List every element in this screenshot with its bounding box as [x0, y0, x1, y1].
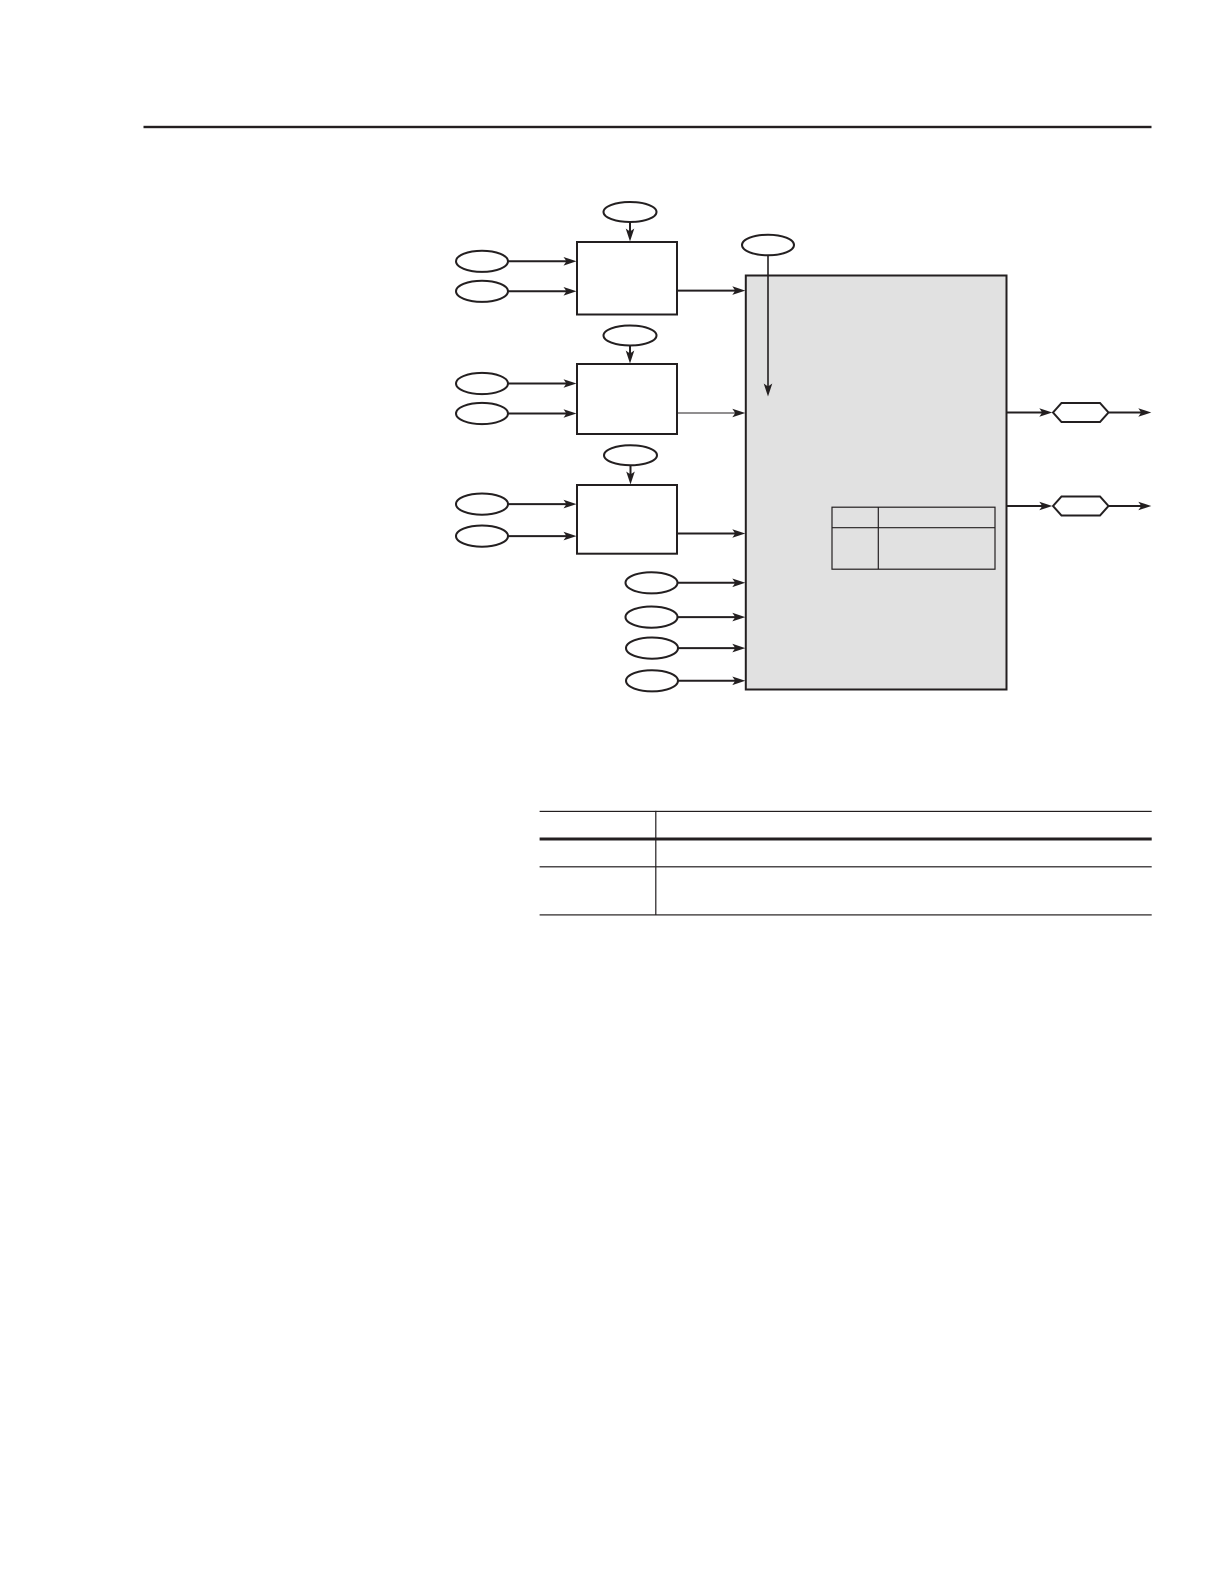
wire E10 into main block — [767, 255, 769, 388]
wire B3 to main block — [677, 533, 736, 535]
wire B2 to main block (thin) — [677, 412, 736, 414]
bottom table column divider — [655, 811, 656, 916]
wire main block to hexagon H1 — [1007, 412, 1044, 414]
bottom table top border — [540, 811, 1152, 812]
block B3 — [577, 485, 677, 554]
block B1 — [577, 242, 677, 315]
output hexagon H1 — [1053, 403, 1109, 422]
input ellipse E14 — [626, 670, 678, 691]
bottom table bottom border — [540, 914, 1152, 915]
wire H2 out — [1109, 505, 1143, 507]
arrowhead B3 output — [732, 529, 745, 538]
output hexagon H2 — [1053, 497, 1109, 516]
wire E11 to main block — [678, 582, 737, 584]
arrowhead E14 — [732, 677, 745, 686]
arrowhead E12 — [732, 613, 745, 622]
arrowhead into H2 — [1039, 502, 1052, 511]
wire E7 to B3 — [630, 465, 632, 476]
input ellipse E3 — [456, 281, 508, 302]
input ellipse E7 (block B3 top) — [604, 445, 657, 465]
wire E3 to B1 — [508, 290, 567, 292]
input ellipse E11 — [626, 572, 678, 593]
arrowhead H2 out — [1138, 502, 1151, 511]
block B2 — [577, 364, 677, 434]
inner table vertical divider — [877, 507, 879, 569]
wire E4 to B2 — [629, 346, 631, 356]
arrowhead into B2 top — [626, 351, 635, 364]
arrowhead E10 — [764, 384, 773, 397]
wire E2 to B1 — [508, 260, 567, 262]
wire H1 out — [1109, 412, 1143, 414]
wire E1 to B1 — [629, 222, 631, 233]
wire E5 to B2 — [508, 383, 567, 385]
input ellipse E9 — [456, 526, 508, 547]
wire B1 to main block — [677, 290, 736, 292]
arrowhead into H1 — [1039, 408, 1052, 417]
arrowhead E5 — [564, 379, 577, 388]
wire E14 to main block — [678, 680, 736, 682]
arrowhead H1 out — [1138, 408, 1151, 417]
arrowhead E3 — [564, 287, 577, 296]
arrowhead B1 output — [732, 286, 745, 295]
input ellipse E10 (above main block) — [742, 235, 794, 256]
input ellipse E8 — [456, 494, 508, 515]
main block M1 (gray) — [746, 276, 1007, 690]
wire E6 to B2 — [508, 413, 567, 415]
arrowhead E9 — [564, 532, 577, 541]
input ellipse E4 (block B2 top) — [604, 326, 657, 346]
input ellipse E6 — [456, 403, 508, 424]
arrowhead E8 — [564, 500, 577, 509]
inner table horizontal divider — [832, 527, 995, 529]
bottom table middle row line — [540, 866, 1152, 867]
arrowhead E2 — [564, 257, 577, 266]
arrowhead E13 — [732, 644, 745, 653]
arrowhead E11 — [732, 579, 745, 588]
input ellipse E5 — [456, 373, 508, 394]
header rule — [144, 126, 1152, 128]
wire E13 to main block — [678, 647, 736, 649]
input ellipse E2 — [456, 251, 508, 272]
arrowhead B2 output — [732, 409, 745, 418]
arrowhead E6 — [564, 409, 577, 418]
arrowhead into B1 top — [626, 229, 635, 242]
input ellipse E1 (block B1 top) — [604, 202, 657, 222]
bottom table header separator (thick) — [540, 838, 1152, 841]
wire main block to hexagon H2 — [1007, 505, 1044, 507]
inner table in main block — [832, 507, 995, 569]
wire E12 to main block — [678, 616, 737, 618]
wire E9 to B3 — [508, 535, 567, 537]
arrowhead into B3 top — [626, 472, 635, 485]
wire E8 to B3 — [508, 503, 567, 505]
input ellipse E12 — [626, 607, 678, 628]
input ellipse E13 — [626, 638, 678, 659]
